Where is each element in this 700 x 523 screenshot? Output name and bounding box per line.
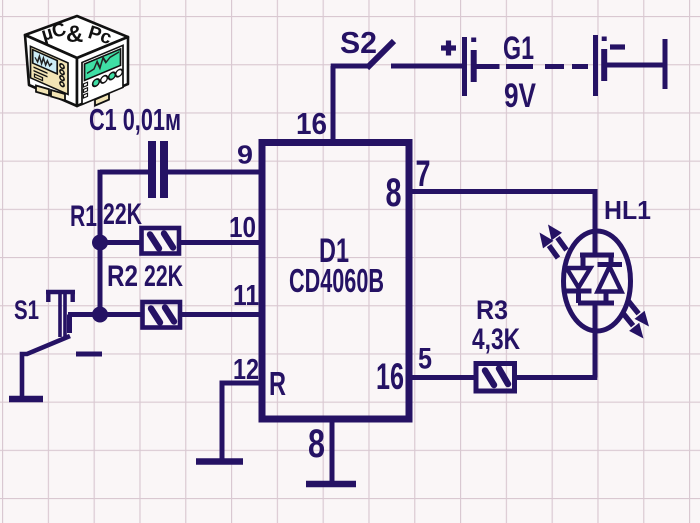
LED HL1 left cathode bar [566, 289, 592, 294]
LED HL1 emission arrow 1 [548, 225, 567, 251]
switch S1 hook [67, 315, 72, 334]
svg-text:C1 0,01м: C1 0,01м [89, 102, 181, 137]
battery G1 cell1 short plate [471, 50, 477, 82]
LED HL1 left diode triangle [567, 268, 591, 288]
wire pin12 to ground [222, 383, 260, 459]
logo oscilloscope left face [31, 46, 69, 94]
battery G1 cell2 long plate [593, 35, 598, 96]
battery G1 cell2 short plate [601, 49, 607, 81]
svg-text:22K: 22K [144, 260, 183, 293]
wire dot1 to R1 [101, 240, 140, 245]
wire pin9 to C1 [100, 170, 259, 175]
plus sign [441, 41, 456, 56]
wire S1 to dot2 [68, 312, 101, 317]
switch S1 fixed contact dash [76, 352, 102, 357]
LED HL1 emission arrow 3 [628, 300, 650, 327]
wire HL1 bottom lead [593, 303, 598, 378]
wire pin5 to R3 [409, 375, 476, 380]
wire cell2 to terminal [606, 63, 663, 68]
wire R3 to HL1 [515, 375, 598, 380]
ground pin8 [306, 481, 356, 488]
wire S2 left stub [331, 64, 368, 69]
LED HL1 left branch connector [581, 255, 586, 268]
svg-text:R1: R1 [70, 200, 97, 233]
wire S2 right contact to battery [391, 64, 462, 69]
logo µC & Pc cube [25, 16, 128, 106]
LED HL1 right lower connector [604, 292, 609, 304]
svg-text:R2: R2 [107, 260, 138, 293]
LED HL1 right diode triangle [598, 267, 622, 292]
resistor R3 [476, 364, 515, 392]
svg-text:R3: R3 [476, 295, 508, 325]
switch S1 stem [60, 292, 65, 337]
svg-text:16: 16 [296, 106, 327, 141]
svg-text:22K: 22K [103, 198, 142, 231]
wire cell1 to dashes [476, 64, 500, 69]
LED HL1 bottom rail [578, 301, 614, 306]
resistor R1 [142, 228, 180, 254]
battery G1 cell1 long plate [462, 37, 467, 96]
LED HL1 emission arrow 4 [622, 312, 644, 339]
svg-text:&: & [66, 21, 83, 48]
switch S2 lever [367, 41, 394, 68]
battery G1 cell2 dot [602, 37, 607, 42]
junction dot node2 [92, 307, 108, 323]
svg-text:7: 7 [416, 153, 431, 194]
wire node vertical R1-R2 [98, 170, 103, 315]
svg-text:S2: S2 [340, 25, 377, 60]
svg-text:HL1: HL1 [604, 195, 651, 225]
svg-text:G1: G1 [503, 30, 534, 66]
logo text µC & Pc [39, 19, 114, 49]
wire dashed battery link [506, 64, 588, 69]
svg-text:8: 8 [308, 422, 325, 466]
LED HL1 right branch connector [609, 255, 614, 265]
LED HL1 left lower connector [576, 291, 581, 303]
resistor R2 [143, 302, 181, 328]
capacitor C1 [148, 141, 168, 198]
junction dot node1 [92, 235, 108, 251]
LED HL1 right cathode bar [598, 262, 623, 267]
svg-text:8: 8 [386, 171, 402, 215]
ground pin12 [196, 458, 243, 465]
svg-text:9V: 9V [504, 77, 536, 115]
IC D1 body [262, 143, 409, 420]
svg-text:R: R [269, 365, 286, 402]
wire HL1 top lead [593, 189, 598, 255]
wire pin16 vertical to top rail [331, 66, 336, 143]
terminal bar [663, 39, 668, 89]
wire R2 to pin11 [180, 312, 259, 317]
wire dot2 to R2 [101, 312, 141, 317]
logo feet [36, 86, 109, 106]
svg-text:16: 16 [376, 356, 404, 397]
svg-text:5: 5 [418, 343, 432, 376]
logo monitor right face [82, 45, 123, 104]
svg-text:9: 9 [237, 140, 253, 170]
ground S1 [9, 396, 43, 403]
wire R1 to pin10 [179, 240, 259, 245]
svg-text:10: 10 [229, 212, 256, 244]
svg-text:12: 12 [233, 354, 259, 386]
svg-text:4,3K: 4,3K [472, 323, 520, 356]
switch S1 moving contact [22, 336, 70, 396]
LED HL1 emission arrow 2 [540, 233, 559, 259]
switch S1 button cap [46, 292, 75, 302]
svg-text:CD4060B: CD4060B [289, 262, 384, 299]
minus sign [610, 44, 625, 49]
LED HL1 envelope [564, 231, 631, 331]
wire pin8 bottom to ground [330, 419, 335, 482]
svg-text:11: 11 [233, 280, 259, 312]
wire pin7 to HL1 [409, 189, 595, 194]
svg-text:S1: S1 [14, 295, 39, 325]
LED HL1 top rail [580, 253, 614, 258]
battery G1 cell1 dot [471, 38, 476, 43]
